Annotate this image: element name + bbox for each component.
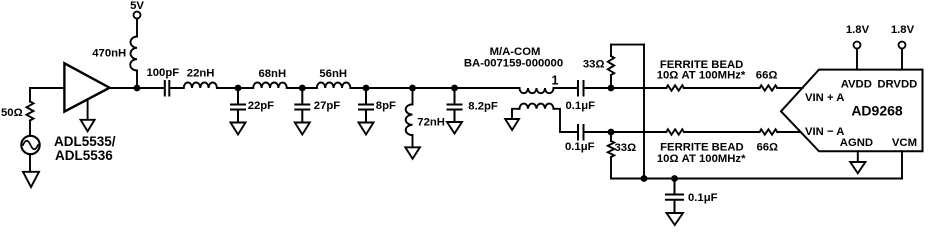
- wire: [584, 131, 667, 133]
- node D junction: [363, 85, 370, 92]
- wire secondary left to ground: [512, 109, 520, 119]
- capacitor 27pF shunt: [295, 88, 309, 123]
- node H junction: [608, 129, 615, 136]
- wire 33ohm top to bus: [611, 44, 644, 46]
- inductor L1 470nH: [130, 37, 137, 71]
- svg-text:72nH: 72nH: [417, 116, 445, 128]
- inductor 56nH: [317, 83, 351, 89]
- source V1 sine generator: [21, 136, 39, 154]
- svg-text:ADL5535/: ADL5535/: [54, 134, 116, 149]
- wire secondary right down: [554, 109, 579, 132]
- resistor 66ohm top: [760, 85, 778, 90]
- wire source to resistor: [29, 88, 31, 136]
- transformer T1 secondary: [520, 104, 554, 109]
- svg-text:66Ω: 66Ω: [756, 141, 778, 153]
- wire: [584, 87, 667, 89]
- ground (secondary): [505, 119, 519, 130]
- capacitor 100pF: [165, 81, 170, 96]
- ground (72nH): [405, 147, 420, 158]
- svg-text:8pF: 8pF: [376, 100, 396, 112]
- wire to VIN+A: [777, 87, 802, 89]
- ferrite bead FB2 bottom: [666, 129, 684, 134]
- ground (8pF): [359, 123, 374, 135]
- resistor 33ohm bottom: [610, 132, 612, 179]
- svg-text:AD9268: AD9268: [851, 103, 903, 119]
- svg-text:470nH: 470nH: [92, 47, 126, 59]
- svg-text:50Ω: 50Ω: [1, 107, 23, 119]
- ground (amp): [81, 101, 95, 132]
- capacitor 8pF shunt: [359, 88, 373, 123]
- svg-text:5V: 5V: [130, 0, 144, 12]
- svg-text:22nH: 22nH: [187, 67, 215, 79]
- node E junction: [409, 85, 416, 92]
- capacitor 0.1uF decoupling: [666, 179, 683, 214]
- pin AGND ground: [850, 151, 865, 173]
- svg-text:BA-007159-000000: BA-007159-000000: [464, 57, 563, 69]
- wire 5V to inductor: [136, 19, 138, 37]
- svg-text:ADL5536: ADL5536: [55, 148, 113, 163]
- resistor 66ohm bottom: [760, 129, 778, 134]
- svg-text:M/A-COM: M/A-COM: [490, 46, 541, 58]
- wire to amp: [30, 87, 64, 89]
- wire: [217, 87, 253, 89]
- svg-text:100pF: 100pF: [146, 67, 179, 79]
- svg-text:0.1μF: 0.1μF: [688, 192, 718, 204]
- wire: [287, 87, 317, 89]
- wire: [684, 87, 760, 89]
- svg-text:8.2pF: 8.2pF: [468, 100, 498, 112]
- svg-text:VCM: VCM: [892, 137, 917, 149]
- svg-text:VIN + A: VIN + A: [805, 92, 844, 104]
- node C junction: [299, 85, 306, 92]
- bus wire vertical: [643, 45, 645, 179]
- ground (source): [23, 154, 39, 187]
- svg-text:10Ω AT 100MHz*: 10Ω AT 100MHz*: [657, 70, 746, 82]
- svg-text:AVDD: AVDD: [841, 78, 872, 90]
- inductor 68nH: [253, 83, 287, 89]
- capacitor 0.1uF top series: [578, 81, 584, 96]
- svg-text:0.1μF: 0.1μF: [565, 141, 595, 153]
- svg-text:33Ω: 33Ω: [615, 142, 637, 154]
- wire to VIN-A: [777, 131, 800, 133]
- pin AVDD 1.8V: [856, 49, 858, 70]
- ground (8.2pF): [447, 122, 462, 134]
- svg-text:22pF: 22pF: [248, 100, 274, 112]
- wire: [350, 87, 519, 89]
- svg-text:27pF: 27pF: [314, 100, 340, 112]
- ground (decoupling): [667, 213, 684, 225]
- wire: [684, 131, 760, 133]
- 5V terminal: [134, 12, 141, 19]
- ground (27pF): [295, 123, 310, 135]
- svg-text:56nH: 56nH: [319, 68, 347, 80]
- node A junction: [134, 85, 141, 92]
- ADC U2 AD9268: [781, 70, 923, 152]
- svg-text:68nH: 68nH: [258, 68, 286, 80]
- resistor 33ohm top: [610, 45, 612, 88]
- wire primary to cap: [554, 87, 579, 89]
- inductor 72nH shunt: [412, 88, 414, 104]
- inductor 22nH: [184, 83, 217, 89]
- op-amp U1 ADL5535/ADL5536: [64, 63, 109, 111]
- wire amp output: [109, 87, 165, 89]
- svg-text:FERRITE BEAD: FERRITE BEAD: [660, 141, 743, 153]
- node B junction: [235, 85, 242, 92]
- svg-text:1.8V: 1.8V: [891, 24, 915, 36]
- node K junction: [671, 175, 678, 182]
- svg-text:DRVDD: DRVDD: [877, 78, 917, 90]
- wire: [169, 87, 183, 89]
- pin VCM wire: [901, 151, 903, 178]
- svg-text:VIN − A: VIN − A: [805, 126, 844, 138]
- capacitor 22pF shunt: [231, 88, 245, 123]
- svg-text:10Ω AT 100MHz*: 10Ω AT 100MHz*: [657, 153, 746, 165]
- capacitor 0.1uF bottom series: [578, 125, 584, 140]
- capacitor 8.2pF shunt: [448, 88, 462, 122]
- svg-text:1: 1: [552, 73, 559, 87]
- node J junction: [641, 175, 648, 182]
- VCM rail wire: [611, 178, 902, 180]
- node F junction: [451, 85, 458, 92]
- resistor 50ohm: [27, 102, 34, 121]
- ferrite bead FB1 top: [666, 85, 684, 90]
- transformer T1 M/A-COM BA-007159-000000 primary: [520, 88, 554, 93]
- pin DRVDD 1.8V: [901, 49, 903, 70]
- svg-text:33Ω: 33Ω: [583, 59, 605, 71]
- svg-text:0.1μF: 0.1μF: [566, 100, 596, 112]
- svg-text:1.8V: 1.8V: [846, 24, 870, 36]
- ground (22pF): [231, 123, 246, 135]
- svg-text:66Ω: 66Ω: [756, 70, 778, 82]
- svg-text:AGND: AGND: [840, 137, 873, 149]
- node G junction: [608, 85, 615, 92]
- wire inductor to node A: [136, 71, 138, 89]
